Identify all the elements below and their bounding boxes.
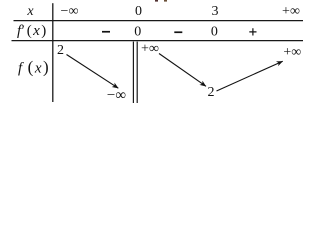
svg-text:0: 0 <box>134 24 141 39</box>
svg-text:+∞: +∞ <box>141 42 159 57</box>
svg-text:3: 3 <box>212 4 219 19</box>
sign minus 1 <box>102 31 110 33</box>
header column separator line <box>52 3 54 102</box>
svg-text:2: 2 <box>208 85 215 100</box>
cropped text speck 2 <box>164 0 167 2</box>
svg-text:+∞: +∞ <box>282 4 300 19</box>
svg-text:0: 0 <box>135 4 142 19</box>
sign plus <box>249 28 256 35</box>
svg-text:2: 2 <box>57 43 64 58</box>
svg-text:−∞: −∞ <box>61 4 79 19</box>
row divider line 2 <box>12 40 304 42</box>
arrow decreasing from 2 to minus infinity <box>67 55 119 89</box>
svg-text:f′(x): f′(x) <box>17 23 46 39</box>
arrow increasing from 2 to plus infinity <box>217 61 283 91</box>
cropped text speck 1 <box>155 0 158 2</box>
svg-text:0: 0 <box>211 24 218 39</box>
arrow decreasing from plus infinity to 2 <box>159 54 206 87</box>
svg-text:+∞: +∞ <box>283 45 301 60</box>
svg-text:−∞: −∞ <box>107 88 126 104</box>
double bar discontinuity at x=0 <box>132 42 134 103</box>
svg-text:x: x <box>26 4 34 19</box>
row divider line 1 <box>14 20 304 22</box>
sign minus 2 <box>174 31 182 33</box>
